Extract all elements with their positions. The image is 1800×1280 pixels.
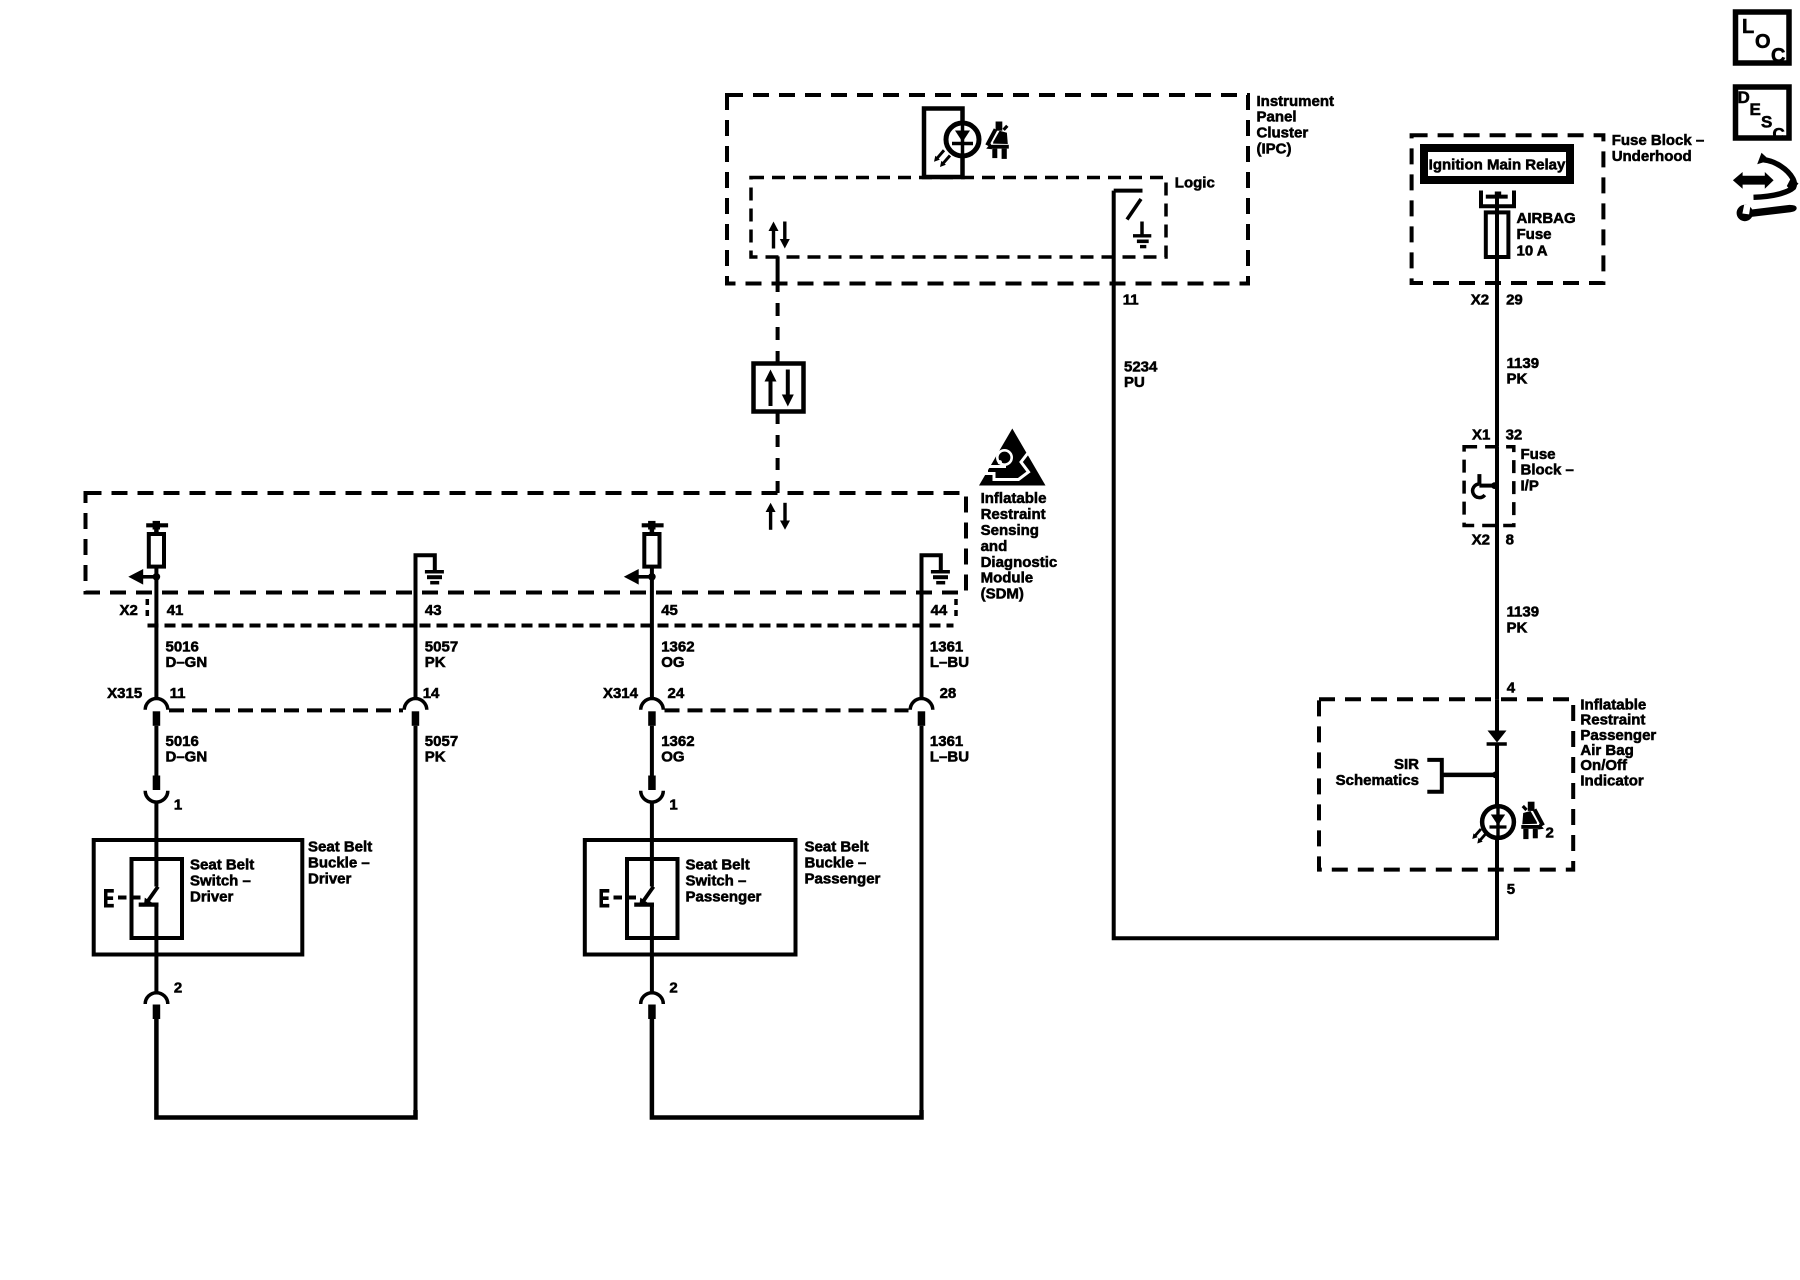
svg-text:Fuse Block –: Fuse Block – — [1612, 132, 1705, 149]
connector X314 labels — [603, 685, 956, 702]
svg-text:E: E — [1750, 100, 1761, 119]
SDM pull-up resistor (pin 41) — [128, 521, 168, 593]
svg-text:32: 32 — [1506, 427, 1523, 444]
switch label (passenger) — [686, 857, 762, 906]
SDM internal ground (pin 43) — [416, 555, 444, 592]
svg-text:Fuse: Fuse — [1517, 226, 1552, 243]
svg-text:28: 28 — [940, 685, 957, 702]
fuse block I/P feed terminal — [1473, 474, 1498, 497]
switch label (driver) — [190, 857, 254, 906]
seat belt person icon (indicator) — [1521, 802, 1544, 839]
wire label 1139 PK — [1507, 355, 1540, 388]
diode — [1487, 731, 1507, 745]
seat belt switch passenger box — [627, 859, 678, 938]
svg-text:1: 1 — [669, 797, 677, 814]
serial data arrows (logic) — [769, 222, 790, 249]
seat belt switch (passenger) — [627, 840, 654, 955]
seat belt switch (driver) — [132, 840, 159, 955]
svg-text:Seat Belt: Seat Belt — [190, 857, 254, 874]
seat belt indicator lamp (IPC) — [924, 109, 979, 178]
Inflatable Restraint Sensing and Diagnostic Module (SDM) dashed box — [86, 493, 967, 593]
DESC legend box — [1736, 87, 1790, 144]
svg-text:4: 4 — [1507, 680, 1516, 697]
svg-text:PK: PK — [1507, 371, 1528, 388]
SDM connector row: X2 / pins — [119, 599, 956, 621]
svg-text:1139: 1139 — [1507, 603, 1540, 620]
svg-text:I/P: I/P — [1521, 477, 1539, 494]
AIRBAG fuse 10A — [1486, 197, 1576, 260]
svg-text:Block –: Block – — [1521, 462, 1574, 479]
svg-text:PK: PK — [425, 654, 446, 671]
svg-text:S: S — [1761, 113, 1772, 132]
E terminal (passenger) — [600, 889, 623, 907]
svg-text:Restraint: Restraint — [981, 506, 1046, 523]
SDM pull-up resistor (pin 45) — [624, 521, 664, 593]
wire pin4 into indicator — [1495, 699, 1499, 731]
Inflatable Restraint Passenger Air Bag On/Off Indicator dashed box — [1319, 699, 1573, 869]
ground (logic) — [1133, 222, 1151, 247]
relay output terminal — [1481, 191, 1514, 207]
svg-text:Underhood: Underhood — [1612, 148, 1692, 165]
fuse block underhood label — [1612, 132, 1705, 165]
wire within I/P block — [1495, 447, 1499, 526]
passenger airbag on/off LED indicator — [1472, 806, 1514, 843]
svg-text:Passenger: Passenger — [805, 870, 881, 887]
buckle pin 2 connector (passenger) — [641, 955, 678, 1020]
svg-text:X2: X2 — [1471, 292, 1489, 309]
serial data arrows (SDM) — [766, 503, 790, 530]
svg-text:2: 2 — [1546, 825, 1554, 842]
wire 1139 PK : I/P to indicator pin 4 — [1495, 526, 1499, 700]
passenger loop wire to pin 28 — [652, 1019, 922, 1118]
wire 5016 D-GN (upper) — [154, 593, 158, 699]
Logic dashed box — [751, 178, 1166, 258]
svg-text:X1: X1 — [1472, 427, 1490, 444]
indicator label — [1580, 696, 1656, 789]
wire (dashed serial data, lower) — [776, 412, 780, 493]
wire 1361 L-BU (lower) — [920, 726, 924, 1118]
svg-text:Cluster: Cluster — [1257, 125, 1309, 142]
svg-text:Diagnostic: Diagnostic — [981, 554, 1058, 571]
svg-text:2: 2 — [174, 980, 182, 997]
svg-text:5: 5 — [1507, 881, 1515, 898]
wire 1139 PK : fuse to fuse block I/P — [1495, 257, 1499, 447]
svg-text:C: C — [1771, 45, 1785, 67]
svg-text:AIRBAG: AIRBAG — [1517, 210, 1576, 227]
svg-text:PK: PK — [1507, 619, 1528, 636]
svg-text:11: 11 — [170, 685, 186, 702]
SDM internal ground (pin 44) — [922, 555, 950, 592]
X314 connector halves (pin 24) — [641, 699, 664, 726]
wire LED to pin 5 — [1495, 837, 1499, 870]
svg-text:(IPC): (IPC) — [1257, 141, 1292, 158]
LOC legend box — [1736, 12, 1790, 67]
svg-text:X315: X315 — [107, 685, 142, 702]
X2 29 labels — [1471, 292, 1523, 309]
svg-text:Switch –: Switch – — [190, 873, 251, 890]
wire 1361 L-BU (upper) — [920, 593, 924, 699]
serial data link: logic to SDM — [776, 256, 780, 363]
svg-text:Indicator: Indicator — [1580, 772, 1644, 789]
Instrument Panel Cluster (IPC) dashed box — [727, 95, 1248, 284]
Seat Belt Buckle - Driver box — [94, 840, 303, 955]
Ignition Main Relay framed label — [1424, 148, 1570, 180]
svg-text:SIR: SIR — [1394, 756, 1419, 773]
svg-text:10 A: 10 A — [1517, 243, 1548, 260]
svg-text:X2: X2 — [1472, 531, 1490, 548]
svg-text:Driver: Driver — [308, 870, 352, 887]
buckle pin 1 in-line connector (passenger) — [641, 776, 678, 841]
svg-text:43: 43 — [425, 602, 442, 619]
X315 connector halves (pin 11) — [145, 699, 168, 726]
connector X315 labels — [107, 685, 440, 702]
svg-text:Instrument: Instrument — [1257, 93, 1335, 110]
svg-text:Logic: Logic — [1175, 174, 1215, 191]
svg-text:1: 1 — [174, 797, 182, 814]
svg-text:L: L — [1742, 16, 1754, 38]
X315 link dashed line — [169, 708, 403, 712]
buckle pin 2 connector (driver) — [145, 955, 182, 1020]
X314 link dashed line — [665, 708, 909, 712]
svg-text:X2: X2 — [119, 602, 137, 619]
X314 connector halves (pin 28) — [910, 699, 933, 726]
svg-text:D–GN: D–GN — [166, 749, 208, 766]
SDM label — [981, 490, 1058, 602]
wire 1362 OG (lower) — [650, 726, 654, 776]
svg-text:D: D — [1738, 88, 1750, 107]
svg-text:45: 45 — [661, 602, 678, 619]
svg-text:and: and — [981, 538, 1008, 555]
X2 8 labels — [1472, 531, 1514, 548]
svg-text:24: 24 — [668, 685, 685, 702]
svg-text:41: 41 — [167, 602, 184, 619]
E terminal (driver) — [104, 889, 127, 907]
svg-text:L–BU: L–BU — [930, 749, 969, 766]
X1 32 labels — [1472, 427, 1522, 444]
fuse block I/P label — [1521, 446, 1574, 494]
svg-text:14: 14 — [423, 685, 440, 702]
svg-text:1139: 1139 — [1507, 355, 1540, 372]
svg-text:11: 11 — [1123, 292, 1139, 309]
svg-text:OG: OG — [661, 654, 684, 671]
svg-text:PK: PK — [425, 749, 446, 766]
svg-text:Inflatable: Inflatable — [981, 490, 1047, 507]
svg-text:Switch –: Switch – — [686, 873, 747, 890]
svg-text:Seat Belt: Seat Belt — [308, 839, 372, 856]
wire label 5234 PU — [1124, 359, 1158, 391]
svg-text:PU: PU — [1124, 374, 1145, 391]
Seat Belt Buckle - Passenger box — [585, 840, 796, 955]
driver loop wire to pin 14 — [156, 1019, 415, 1118]
svg-text:Schematics: Schematics — [1336, 772, 1419, 789]
buckle pin 1 in-line connector (driver) — [145, 776, 182, 841]
svg-text:Seat Belt: Seat Belt — [805, 839, 869, 856]
wire 1362 OG (upper) — [650, 593, 654, 699]
buckle passenger label — [805, 839, 881, 888]
svg-text:2: 2 — [669, 980, 677, 997]
svg-text:Seat Belt: Seat Belt — [686, 857, 750, 874]
svg-text:Sensing: Sensing — [981, 522, 1039, 539]
wire 5057 PK (lower) — [414, 726, 418, 1118]
svg-text:Passenger: Passenger — [686, 889, 762, 906]
svg-text:Ignition Main Relay: Ignition Main Relay — [1429, 157, 1566, 174]
svg-text:8: 8 — [1506, 531, 1514, 548]
logic driver switch to ground — [1114, 191, 1143, 220]
SIR Schematics reference — [1336, 756, 1499, 792]
Fuse Block I/P dashed box — [1464, 447, 1514, 526]
SDM connector dotted line — [148, 624, 954, 628]
svg-text:OG: OG — [661, 749, 684, 766]
seat belt switch driver box — [132, 859, 183, 938]
wire 5016 D-GN (lower) — [154, 726, 158, 776]
Fuse Block Underhood dashed box — [1412, 135, 1604, 283]
wire diode to LED — [1495, 744, 1499, 807]
X315 connector halves (pin 14) — [404, 699, 427, 726]
svg-text:X314: X314 — [603, 685, 639, 702]
buckle driver label — [308, 839, 372, 888]
svg-text:D–GN: D–GN — [166, 654, 208, 671]
wire 5234 PU : IPC pin 11 to indicator pin 5 — [1114, 191, 1497, 939]
svg-text:L–BU: L–BU — [930, 654, 969, 671]
wire label 1139 PK (lower) — [1507, 603, 1540, 636]
seat belt person icon (IPC) — [986, 122, 1009, 159]
serial data connector box — [754, 364, 804, 412]
svg-text:Buckle –: Buckle – — [805, 854, 867, 871]
IPC label — [1257, 93, 1335, 158]
wire 5057 PK (upper) — [414, 593, 418, 699]
svg-text:O: O — [1755, 31, 1771, 53]
svg-text:C: C — [1773, 125, 1785, 144]
svg-text:Buckle –: Buckle – — [308, 854, 370, 871]
svg-text:29: 29 — [1506, 292, 1523, 309]
navigation tools icon — [1733, 153, 1799, 221]
svg-text:44: 44 — [931, 602, 948, 619]
svg-text:(SDM): (SDM) — [981, 586, 1024, 603]
svg-text:Driver: Driver — [190, 889, 234, 906]
svg-text:Module: Module — [981, 570, 1034, 587]
svg-text:Panel: Panel — [1257, 109, 1297, 126]
SDM warning triangle — [979, 429, 1046, 486]
